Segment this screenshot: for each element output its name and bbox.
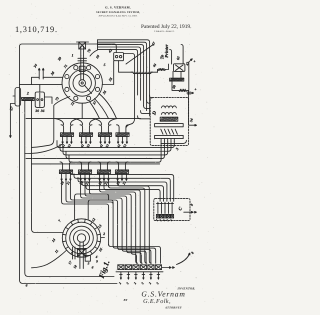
wire: relay 30 to top loop	[40, 85, 52, 104]
svg-text:2: 2	[26, 91, 29, 96]
distributor 2 outer ring	[62, 219, 100, 257]
D armature contacts	[161, 129, 163, 134]
D core bar	[160, 117, 178, 121]
distributor 1 shaft top block	[79, 42, 86, 49]
svg-text:BY: BY	[123, 298, 129, 302]
relay unit R10	[60, 133, 73, 137]
C contact blocks	[156, 214, 159, 218]
svg-text:Patented July 22, 1919.: Patented July 22, 1919.	[141, 24, 191, 30]
relay 42	[114, 53, 124, 61]
distributor 1 brush holder	[79, 66, 85, 71]
distributor 2 brush block	[77, 248, 86, 257]
wire harness: down to relay bank fan	[109, 244, 161, 263]
bottom bank base line	[116, 271, 163, 273]
svg-text:35: 35	[102, 90, 108, 96]
svg-text:2: 2	[156, 282, 160, 286]
svg-text:2: 2	[118, 282, 122, 286]
svg-text:28: 28	[98, 181, 103, 186]
bottom bank armature pins	[120, 272, 123, 278]
wire: bus vertical C to distributor 2	[32, 101, 63, 233]
svg-text:21: 21	[122, 181, 127, 186]
wire: bank output with double arrow	[162, 267, 169, 269]
scan speckle (decorative)	[138, 43, 141, 46]
wire: bus vertical B	[25, 101, 114, 277]
battery arrows +	[187, 62, 189, 90]
D bar upper	[155, 124, 184, 127]
switch 34 arrows	[39, 70, 43, 80]
svg-text:4: 4	[162, 219, 166, 223]
retardation coil 55	[131, 72, 153, 74]
relay unit R13	[116, 133, 129, 137]
wire: coil to printer branch	[151, 71, 158, 73]
svg-text:17: 17	[68, 260, 73, 265]
svg-text:6: 6	[26, 284, 28, 288]
distributor 2 inner rings	[70, 226, 94, 250]
svg-text:1,310,719.: 1,310,719.	[15, 25, 58, 34]
wire bus: to tape transmitter C	[70, 170, 174, 201]
relay 2 coil bar	[22, 98, 34, 101]
svg-text:+: +	[194, 87, 197, 92]
relay 43	[174, 64, 185, 72]
svg-text:ATTORNEY: ATTORNEY	[164, 305, 182, 309]
wire: feed line over relay row 2	[26, 158, 152, 160]
bottom relay bank coils	[118, 265, 124, 270]
svg-text:2: 2	[159, 219, 163, 223]
svg-text:70: 70	[86, 48, 92, 54]
D coil row 1	[162, 106, 177, 108]
svg-text:2: 2	[103, 232, 106, 236]
wire: D right lead hook	[161, 140, 186, 143]
svg-text:60: 60	[172, 84, 177, 89]
distributor 1 stud ring	[95, 87, 99, 91]
polar relay 30	[35, 92, 44, 107]
svg-text:39: 39	[56, 56, 62, 62]
wire: printer leads vertical	[170, 45, 184, 65]
svg-text:34: 34	[33, 63, 39, 69]
svg-text:SECRET SIGNALING SYSTEM,: SECRET SIGNALING SYSTEM,	[96, 11, 140, 14]
svg-text:8: 8	[190, 203, 194, 207]
svg-text:G.S.Vernam: G.S.Vernam	[141, 289, 185, 298]
relay unit R21	[78, 170, 91, 174]
svg-text:Printer: Printer	[164, 44, 169, 58]
C transmitter pins	[157, 202, 160, 213]
distributor 1 brush shaft	[81, 46, 84, 80]
wire: distributor 2 right tap	[101, 237, 105, 239]
wire: lowest bus lead to left bus C	[32, 163, 160, 165]
wire: main loop outline left/top	[20, 44, 118, 284]
svg-text:3: 3	[174, 147, 179, 151]
svg-text:2: 2	[126, 282, 130, 286]
retard coil 44	[158, 68, 166, 70]
distributor 2 segment ring	[66, 222, 98, 254]
svg-text:1: 1	[72, 53, 74, 58]
D coil row 2	[162, 113, 177, 115]
svg-text:2: 2	[166, 219, 170, 223]
resistor 61	[179, 89, 187, 91]
wire: distributor 2 risers	[75, 194, 109, 219]
svg-text:2: 2	[133, 282, 137, 286]
svg-text:4: 4	[169, 219, 173, 223]
dashed enclosure D	[150, 97, 188, 145]
wire: crossing feeds row 1	[55, 119, 64, 125]
wire: lead 6 from relay 42	[124, 54, 135, 119]
wire bus: D box leads sweeping left	[57, 141, 174, 148]
svg-text:27: 27	[8, 105, 14, 111]
key 27	[15, 88, 21, 107]
distributor 1 shaft brush ticks	[78, 58, 87, 61]
distributor 2 brush aux	[85, 255, 90, 261]
svg-text:2: 2	[141, 282, 145, 286]
svg-text:2 SHEETS—SHEET 1.: 2 SHEETS—SHEET 1.	[154, 30, 175, 33]
dashed enclosure C (tape transmitter)	[154, 199, 190, 221]
svg-text:10: 10	[95, 54, 101, 60]
distributor 1 hub	[79, 80, 86, 87]
distributor 2 hub	[77, 234, 85, 242]
svg-text:36: 36	[40, 109, 44, 113]
wire: C output with arrow	[184, 211, 191, 213]
svg-text:C: C	[177, 206, 184, 212]
crossing lead 47	[126, 45, 153, 64]
svg-text:G. S. VERNAM.: G. S. VERNAM.	[105, 6, 131, 10]
wire: line conductor with arrow	[10, 104, 15, 137]
wires: D magnets down	[160, 139, 162, 142]
svg-text:38: 38	[50, 71, 56, 77]
svg-text:7: 7	[58, 219, 62, 223]
svg-text:4: 4	[95, 255, 98, 259]
wire: distributor feed left upper	[20, 77, 63, 84]
wire: bundle fan into D box	[150, 95, 152, 98]
distributor 1 inner rings	[69, 70, 95, 96]
wire: row1 contacts sweep left to bus	[25, 97, 70, 154]
distributor 1 outer ring	[62, 63, 102, 103]
D bar lower	[155, 135, 184, 138]
svg-text:54: 54	[189, 118, 194, 123]
wire: bundle lead down to relay row1 unit 4	[126, 118, 135, 128]
svg-text:5: 5	[104, 63, 106, 68]
wire: relay 42 down to retard coil	[119, 61, 133, 72]
svg-text:18: 18	[73, 264, 78, 269]
relay unit R23	[115, 170, 128, 174]
wire harness: relay contacts to distributor/transmitter	[62, 179, 109, 245]
svg-text:APPLICATION FILED SEPT. 13, 19: APPLICATION FILED SEPT. 13, 1918.	[99, 14, 138, 17]
svg-text:+: +	[193, 59, 196, 64]
wire: key to relay row	[13, 96, 22, 99]
svg-text:5: 5	[88, 262, 90, 266]
svg-text:6: 6	[92, 266, 94, 270]
svg-text:D: D	[151, 110, 158, 116]
svg-text:30: 30	[35, 109, 39, 113]
svg-text:9: 9	[96, 260, 98, 264]
armature bar 60	[170, 78, 184, 81]
wire: relay 2 armatures down	[25, 100, 32, 102]
wire: distributor 1 bottom leads	[82, 94, 116, 119]
svg-text:8: 8	[190, 251, 194, 255]
svg-text:55: 55	[108, 76, 114, 82]
svg-text:73: 73	[55, 96, 60, 101]
wire: bank riser hook with arrow	[177, 255, 190, 265]
svg-text:G.E.Folk,: G.E.Folk,	[143, 298, 171, 305]
svg-text:11: 11	[54, 249, 59, 254]
distributor 1 brush arm	[85, 85, 92, 93]
svg-text:28: 28	[60, 181, 65, 186]
svg-text:63: 63	[176, 56, 181, 61]
relay unit R22	[97, 170, 110, 174]
wire: distributor 1 right lead	[102, 61, 113, 85]
svg-text:44: 44	[152, 63, 158, 69]
relay unit R20	[59, 170, 72, 174]
relay unit R12	[98, 133, 111, 137]
relay unit R11	[79, 133, 92, 137]
svg-text:71: 71	[63, 64, 68, 69]
wire: commutator leads to right bundle	[98, 40, 150, 116]
distributor 2 brush shaft down	[80, 242, 83, 269]
wire: distributor 2 lower-left tap	[32, 251, 67, 268]
svg-text:2: 2	[148, 282, 152, 286]
wire: D output to printer right	[189, 90, 196, 125]
wire: feed line over relay row 1	[26, 118, 141, 120]
